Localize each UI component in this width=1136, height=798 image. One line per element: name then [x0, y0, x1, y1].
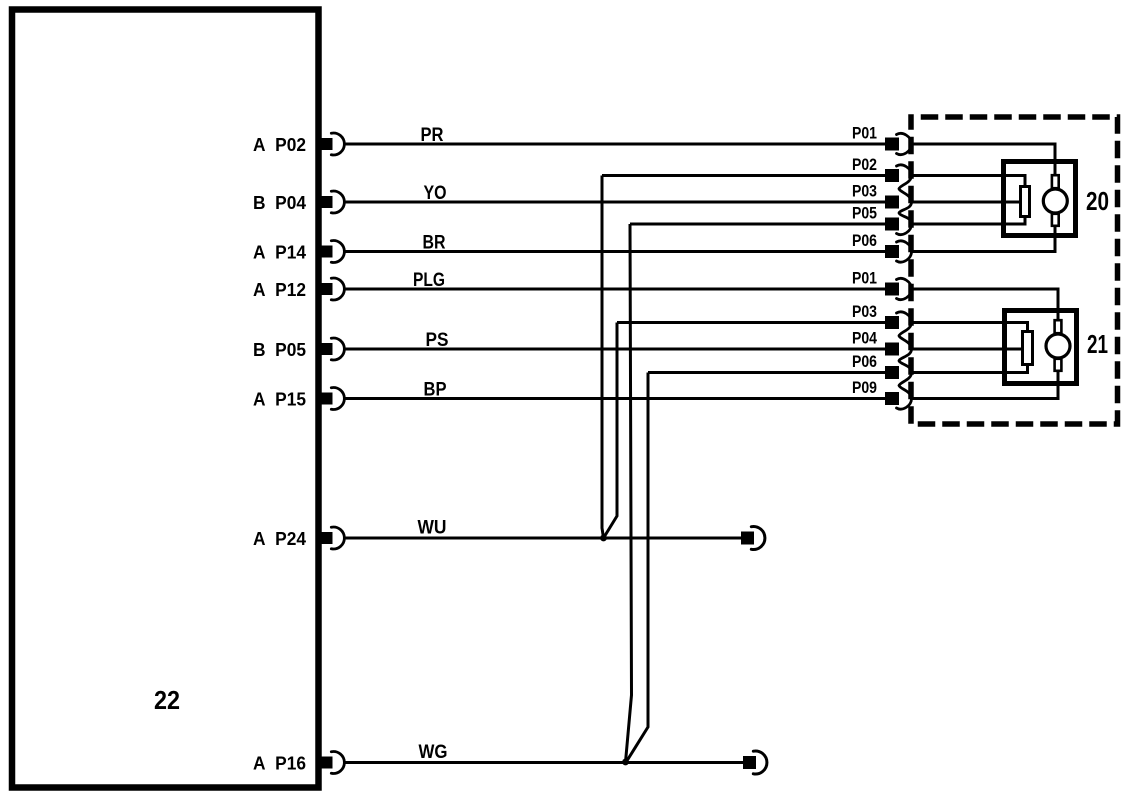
connector pin P01 of 21	[885, 278, 912, 299]
motor top brush of 21	[1055, 320, 1062, 333]
svg-text:PR: PR	[421, 125, 444, 146]
svg-text:PLG: PLG	[413, 270, 445, 291]
svg-text:PS: PS	[426, 330, 449, 351]
svg-text:B P05: B P05	[253, 340, 306, 360]
svg-text:BP: BP	[424, 380, 447, 401]
connector pin A P14 of 22	[320, 240, 344, 262]
wire YO	[344, 201, 885, 204]
vertical wire P05(20) to WG junction	[626, 224, 632, 762]
motor bottom brush of 21	[1055, 359, 1062, 371]
svg-text:A P02: A P02	[253, 135, 306, 155]
wire PS	[344, 348, 885, 351]
wire PR	[344, 143, 885, 146]
wire motor 21 to P09	[911, 368, 1059, 399]
wire to P06 of 21	[648, 371, 885, 374]
svg-text:B P04: B P04	[253, 193, 306, 213]
wire P04 to resistor 21 tap	[911, 348, 1023, 351]
svg-text:WG: WG	[419, 742, 448, 763]
connector pins P02 P03 P05 of 20	[885, 165, 912, 235]
connector pin A P12 of 22	[320, 278, 344, 300]
svg-text:A P16: A P16	[253, 754, 306, 774]
svg-text:P05: P05	[852, 204, 877, 223]
svg-text:20: 20	[1086, 186, 1109, 216]
wire PLG	[344, 288, 885, 291]
svg-text:A P24: A P24	[253, 529, 306, 549]
connector pin A P15 of 22	[320, 388, 344, 410]
vertical wire P02(20) to WU junction	[602, 176, 604, 539]
junction node WG	[622, 759, 629, 766]
wire to P05 of 20	[630, 223, 885, 226]
terminator pin of wire WU	[741, 527, 765, 550]
wire P03 to resistor 20 tap	[911, 201, 1021, 204]
svg-text:A P15: A P15	[253, 390, 306, 410]
svg-text:22: 22	[154, 685, 180, 715]
svg-text:21: 21	[1087, 329, 1108, 359]
wire P06 to resistor 21 bottom	[911, 365, 1028, 373]
svg-text:P06: P06	[852, 231, 877, 250]
ECU box 22	[12, 10, 319, 788]
svg-text:P03: P03	[852, 182, 877, 201]
motor bottom brush of 20	[1052, 214, 1059, 226]
vertical wire P06(21) to WG junction	[627, 373, 649, 762]
wire WU	[344, 537, 741, 540]
wire WG	[344, 761, 743, 764]
svg-text:P02: P02	[852, 155, 877, 174]
connector pins P03 P04 P06 P09 of 21	[885, 312, 912, 409]
motor of 21	[1046, 334, 1070, 358]
actuator box 20	[1004, 162, 1076, 236]
actuator box 21	[1005, 311, 1077, 384]
svg-text:P06: P06	[852, 352, 877, 371]
connector pin A P16 of 22	[320, 752, 344, 774]
connector pin A P02 of 22	[320, 133, 344, 155]
svg-text:P04: P04	[852, 329, 877, 348]
wire P03 to resistor 21 top	[911, 323, 1028, 334]
connector pin P06 of 20	[885, 241, 912, 262]
svg-text:YO: YO	[424, 183, 447, 204]
wire BR	[344, 250, 885, 253]
svg-text:WU: WU	[418, 518, 447, 539]
vertical wire P03(21) to WU junction	[604, 323, 618, 539]
connector pin B P04 of 22	[320, 191, 344, 213]
wire to P03 of 21	[617, 321, 885, 324]
connector pin A P24 of 22	[320, 527, 344, 549]
wire to P02 of 20	[602, 174, 885, 177]
svg-text:P01: P01	[852, 124, 877, 143]
resistor (position feedback) of 21	[1023, 332, 1033, 365]
junction node WU	[600, 535, 607, 542]
wire P01 to motor 21	[911, 289, 1059, 325]
svg-text:A P12: A P12	[253, 280, 306, 300]
svg-text:P09: P09	[852, 378, 877, 397]
motor of 20	[1043, 189, 1067, 213]
connector pin P01 of 20	[885, 133, 912, 154]
wire motor 20 to P06	[911, 222, 1056, 252]
svg-text:P03: P03	[852, 302, 877, 321]
resistor (position feedback) of 20	[1021, 187, 1030, 217]
svg-text:P01: P01	[852, 269, 877, 288]
svg-text:BR: BR	[423, 233, 446, 254]
wire BP	[344, 397, 885, 400]
wire P02 to resistor 20 top	[911, 176, 1026, 189]
wire P01 to motor 20	[911, 144, 1056, 180]
motor top brush of 20	[1052, 175, 1059, 188]
wire P05 to resistor 20 bottom	[911, 216, 1026, 224]
svg-text:A P14: A P14	[253, 243, 306, 263]
terminator pin of wire WG	[743, 751, 767, 774]
dashed component enclosure	[911, 117, 1118, 424]
connector pin B P05 of 22	[320, 338, 344, 360]
